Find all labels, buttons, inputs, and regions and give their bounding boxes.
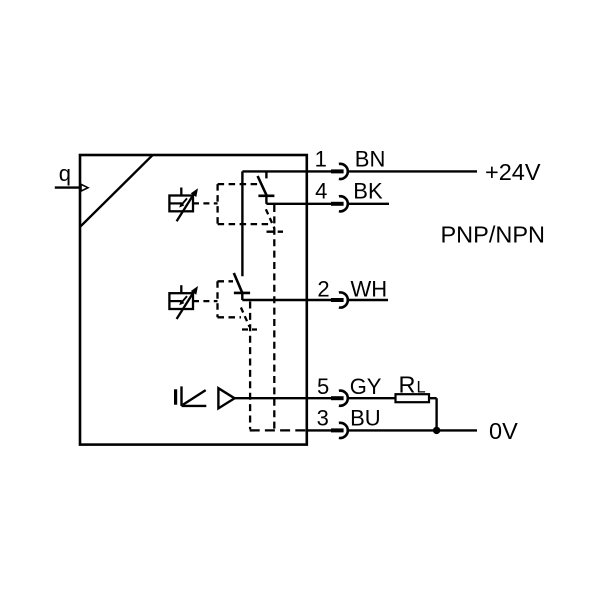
svg-text:PNP/NPN: PNP/NPN [441, 222, 545, 248]
svg-text:GY: GY [350, 374, 382, 399]
svg-text:+24V: +24V [485, 159, 541, 185]
svg-text:2: 2 [317, 276, 329, 301]
svg-text:R: R [399, 372, 416, 398]
svg-text:BK: BK [353, 179, 383, 204]
svg-text:BU: BU [350, 406, 381, 431]
svg-text:5: 5 [317, 374, 329, 399]
svg-text:3: 3 [317, 406, 329, 431]
svg-text:q: q [59, 161, 71, 186]
svg-text:1: 1 [315, 146, 327, 171]
svg-text:4: 4 [315, 179, 327, 204]
svg-text:L: L [417, 379, 426, 397]
svg-text:BN: BN [355, 146, 386, 171]
svg-text:0V: 0V [489, 418, 518, 444]
svg-text:WH: WH [351, 276, 388, 301]
